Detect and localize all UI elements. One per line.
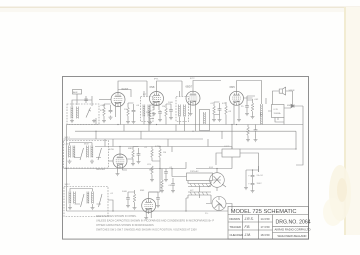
wire: TB1 link	[216, 125, 259, 173]
wire: bus y168	[64, 168, 187, 170]
svg-text:1M: 1M	[163, 152, 166, 154]
aerial terminal A1	[73, 90, 82, 95]
switch arrow SW2a	[80, 148, 84, 160]
wire: aerial lead	[76, 94, 78, 105]
ground G1	[70, 119, 74, 123]
power transformer T4 primary winding	[188, 184, 211, 187]
ground G14	[251, 115, 255, 119]
resistor R13	[161, 180, 164, 188]
wire: V4 right leads	[244, 98, 253, 115]
wire: SW3 to heater bus	[108, 200, 113, 211]
coil L5	[73, 146, 75, 158]
ground G28	[156, 204, 160, 208]
svg-text:470K: 470K	[109, 149, 115, 151]
svg-text:6N8: 6N8	[150, 85, 155, 89]
svg-text:TRACED: TRACED	[230, 225, 242, 229]
resistor R6	[225, 106, 228, 114]
capacitor C8	[137, 152, 141, 157]
wire: diode link	[284, 103, 303, 108]
capacitor C4	[132, 109, 136, 114]
coil T1b	[148, 105, 150, 117]
wire: V1 grid	[99, 99, 111, 101]
svg-text:DRAWN: DRAWN	[230, 217, 240, 221]
ground G13	[245, 112, 249, 116]
ground G8	[158, 118, 162, 122]
svg-text:AER: AER	[73, 91, 78, 94]
resistor R1	[103, 108, 106, 116]
power transformer T4 primary box	[187, 173, 213, 181]
coil L8	[69, 192, 71, 204]
wire: V2 top	[157, 81, 183, 92]
resistor R7	[251, 103, 254, 111]
svg-text:230V.AC: 230V.AC	[190, 170, 199, 173]
svg-text:47K: 47K	[100, 110, 104, 112]
coil L10	[87, 192, 89, 204]
wire: V3 top	[193, 81, 221, 92]
volume pot VR1	[151, 166, 154, 174]
ground G4	[109, 116, 113, 120]
svg-text:P.L.: P.L.	[205, 213, 209, 215]
coil L6	[87, 146, 89, 158]
ground G9	[152, 112, 156, 116]
svg-text:H.T.: H.T.	[190, 190, 194, 192]
ground G6	[132, 120, 136, 124]
wire: component top links	[104, 100, 253, 119]
resistor R4	[165, 108, 168, 116]
wire: C15 leads	[172, 178, 174, 189]
svg-text:SWITCHES SW.1-SW.7 GANGED AND: SWITCHES SW.1-SW.7 GANGED AND SHOWN IN D…	[96, 228, 197, 232]
wire: bus y139	[64, 138, 204, 140]
wire: V2 pins	[150, 104, 166, 125]
ground G17	[90, 160, 94, 164]
svg-text:6M5: 6M5	[230, 85, 236, 89]
coil L3a	[204, 112, 206, 124]
ground G32	[254, 138, 258, 142]
wire: V5 right leads	[127, 147, 139, 163]
svg-text:350V: 350V	[257, 183, 263, 185]
svg-text:AKRAD RADIO CORPN LTD: AKRAD RADIO CORPN LTD	[275, 228, 311, 232]
capacitor C14	[254, 128, 258, 133]
filter capacitor C12	[251, 174, 255, 179]
capacitor C15	[171, 182, 175, 187]
ground G18	[131, 162, 135, 166]
wire: C12 C13 leads	[246, 170, 259, 189]
trimmer C2	[84, 96, 88, 103]
wire: V5 grid left	[109, 160, 114, 162]
ground G30	[244, 186, 248, 190]
capacitor C3	[109, 109, 113, 114]
junction dots	[66, 124, 297, 212]
switch arrow SW2b	[98, 148, 102, 160]
svg-text:VOL: VOL	[147, 164, 152, 166]
tube V3 6BD7	[186, 91, 200, 105]
wire: left riser	[66, 125, 68, 212]
wire: right lower drop	[240, 131, 296, 172]
ground G23	[68, 206, 72, 210]
resistor R12	[247, 127, 250, 135]
capacitor C7	[245, 104, 249, 109]
wire: V5 top	[119, 147, 121, 155]
svg-text:PADDER: PADDER	[96, 168, 105, 171]
box terminal block TB1	[222, 149, 240, 157]
wire: C10 R11 leads	[128, 190, 135, 206]
coil L4	[69, 146, 71, 158]
wire: OT bottom to bus	[262, 98, 272, 125]
svg-text:SPKR: SPKR	[289, 90, 295, 92]
coil T1a	[143, 105, 145, 117]
wire: R5 C6 R6 leads	[214, 102, 226, 125]
svg-text:UNLESS EACH CAPACITIES SHOWN I: UNLESS EACH CAPACITIES SHOWN IN PICOFARA…	[96, 219, 214, 223]
svg-text:DRG.NO. 2064: DRG.NO. 2064	[276, 220, 311, 226]
output transformer T3 coil lower	[261, 113, 263, 125]
resistor R3	[149, 110, 152, 118]
svg-text:O.P.T.: O.P.T.	[224, 146, 230, 148]
ground G3	[102, 119, 106, 123]
wire: right riser	[296, 106, 303, 165]
wire: extra vertical drops mid band	[96, 118, 232, 169]
tube V5 6BD7 triode	[113, 154, 127, 168]
wire: OT top	[237, 81, 262, 105]
svg-text:WAIHI NEW ZEALAND: WAIHI NEW ZEALAND	[278, 234, 307, 238]
ground G31	[246, 138, 250, 142]
ground G15	[237, 118, 241, 122]
wire: T2 leads	[180, 81, 185, 131]
svg-text:OTHER CAPACITIES SHOWN IN MICR: OTHER CAPACITIES SHOWN IN MICROFARADS	[96, 223, 154, 227]
switch arrow SW3b	[99, 194, 103, 207]
ground G22	[164, 178, 168, 182]
ground G27	[144, 216, 148, 220]
diode D1	[291, 104, 294, 107]
dial lamp tube V8	[212, 197, 226, 211]
svg-text:17.3.50: 17.3.50	[261, 225, 270, 229]
wire: AVC bus	[75, 130, 296, 132]
wire: VR1 arrow	[149, 170, 152, 179]
resistor R8	[132, 150, 135, 158]
ground G12	[218, 118, 222, 122]
coil T2a	[179, 105, 181, 117]
oscillator coil box L3	[200, 110, 210, 131]
svg-text:SW.1: SW.1	[65, 137, 71, 139]
wire: lower links	[128, 147, 160, 193]
coil L9	[74, 192, 76, 204]
capacitor C5b	[169, 108, 173, 113]
ground G26	[133, 206, 137, 210]
svg-text:SW.2: SW.2	[65, 184, 71, 186]
capacitor C6	[218, 107, 222, 112]
wire: rectifier feed bus	[196, 157, 232, 169]
power transformer T4 secondary winding	[188, 192, 211, 195]
coil L11	[92, 192, 94, 204]
wire: MR1 bottom	[275, 118, 284, 125]
polarity marks	[248, 175, 250, 186]
ground G20	[116, 172, 120, 176]
wire: C11 leads	[157, 192, 159, 204]
wire: V1 pins down	[104, 104, 121, 125]
ground G16	[68, 160, 72, 164]
wire: V3 pins	[191, 105, 196, 131]
speaker LS1	[279, 87, 285, 95]
capacitor C10	[126, 196, 130, 201]
svg-text:350MA: 350MA	[274, 112, 281, 115]
ground G5	[126, 120, 130, 124]
bandswitch box SW2 (dashed)	[64, 141, 109, 169]
rectifier tube V7 6V4	[210, 173, 225, 188]
wire: SW2 links	[70, 143, 102, 158]
ground G21	[150, 178, 154, 182]
wire: T4 to heater bus	[186, 198, 211, 211]
resistor R5	[213, 106, 216, 114]
output transformer T3 coil	[261, 104, 263, 116]
V8 internals	[215, 197, 224, 211]
capacitor C9	[164, 170, 168, 175]
wire: heater bus	[67, 210, 229, 212]
ground G34	[171, 189, 175, 193]
rectifier V7 internals	[213, 176, 221, 184]
wire: V4 top	[236, 81, 238, 92]
wire: B+ bus	[67, 124, 304, 126]
capacitor C5	[158, 110, 162, 115]
title block	[228, 207, 309, 240]
resistor R2	[127, 108, 130, 116]
svg-text:100K: 100K	[168, 102, 174, 104]
svg-text:L.W.: L.W.	[65, 144, 70, 146]
svg-text:.0001: .0001	[100, 105, 106, 107]
IF transformer T2 (dashed can)	[176, 97, 189, 122]
scanned page right edge	[344, 7, 346, 235]
svg-text:14.3.50: 14.3.50	[261, 217, 270, 221]
schematic sheet border	[63, 77, 309, 240]
svg-text:IFT2: IFT2	[190, 78, 195, 80]
svg-text:18.3.50: 18.3.50	[261, 233, 270, 237]
wire: R2/C4 leads	[128, 103, 134, 120]
wire: coil top link	[72, 96, 92, 107]
svg-text:MODEL 725 SCHEMATIC: MODEL 725 SCHEMATIC	[231, 209, 297, 215]
svg-text:CHECKED: CHECKED	[230, 233, 244, 237]
ground G24	[91, 206, 95, 210]
svg-text:F.B.: F.B.	[245, 225, 251, 229]
resistor R10	[159, 149, 162, 157]
ground G29	[251, 189, 255, 193]
svg-text:500K: 500K	[122, 191, 128, 193]
filter capacitor C13	[251, 182, 255, 187]
coil L1	[71, 107, 73, 119]
wire: V5 pins down	[118, 168, 128, 172]
wire: R13 leads	[161, 169, 163, 190]
wire: R9 R10 leads	[152, 147, 160, 169]
capacitor C11	[156, 196, 160, 201]
wire: SW3 links	[70, 189, 101, 207]
resistor R11	[133, 194, 136, 202]
svg-text:RESISTANCES SHOWN IN OHMS.: RESISTANCES SHOWN IN OHMS.	[96, 214, 137, 218]
svg-text:24+24: 24+24	[257, 175, 264, 177]
svg-text:6AN7: 6AN7	[122, 87, 129, 91]
bandswitch box SW1 (dashed)	[67, 104, 99, 125]
notes text	[96, 214, 214, 232]
svg-text:IFT1: IFT1	[154, 79, 159, 81]
ground G11	[212, 118, 216, 122]
svg-text:6.3V: 6.3V	[274, 109, 279, 111]
wire: V7 leads	[208, 169, 226, 192]
ground G33	[160, 189, 164, 193]
coil T2b	[184, 105, 186, 117]
tube V1 6AN7	[111, 93, 125, 107]
resistor R9	[151, 149, 154, 157]
tube V2 6N8	[150, 92, 164, 106]
ground G9b	[169, 116, 173, 120]
switch arrow SW3a	[81, 194, 85, 207]
bandswitch box SW3 (dashed)	[64, 187, 108, 217]
ground G19	[137, 160, 141, 164]
rectifier block MR1	[272, 105, 285, 118]
wire: C9 leads	[165, 169, 167, 179]
wire: C5b leads	[170, 104, 172, 116]
wire: V6 pins	[146, 212, 151, 218]
mains lead	[172, 169, 187, 177]
wire: V1 top cap	[118, 81, 147, 97]
ground G2	[92, 119, 96, 123]
svg-text:1M: 1M	[162, 106, 165, 108]
scanned page top edge	[0, 7, 360, 9]
svg-text:6BD7: 6BD7	[186, 85, 193, 89]
svg-text:M.W.: M.W.	[84, 144, 89, 146]
wire: speaker loop	[273, 91, 293, 105]
trimmer C1	[86, 108, 91, 118]
wire: V8 leads	[206, 204, 232, 212]
paper stain bottom right	[329, 165, 351, 221]
wire: T4 leads	[186, 181, 211, 199]
tube V4 6M5	[230, 91, 244, 105]
ground G25	[126, 204, 130, 208]
svg-text:47K: 47K	[222, 103, 226, 105]
coil L2	[77, 107, 79, 119]
svg-text:J.R.S.: J.R.S.	[244, 217, 254, 221]
IF transformer T1 (dashed can)	[141, 97, 154, 122]
svg-text:6BD7: 6BD7	[128, 148, 134, 150]
wire: bus y146	[95, 146, 232, 148]
tube V6 6M5 output	[142, 199, 156, 213]
ground G10	[189, 112, 193, 116]
wire: R12 C14 leads	[248, 125, 256, 139]
wire: V6 top	[149, 169, 160, 199]
wire: T1 leads	[144, 81, 149, 131]
ground G7	[148, 121, 152, 125]
coil L7	[91, 146, 93, 158]
svg-text:470K: 470K	[155, 146, 161, 148]
wire: V4 pins down	[234, 105, 239, 125]
svg-text:J.M.: J.M.	[244, 233, 251, 237]
